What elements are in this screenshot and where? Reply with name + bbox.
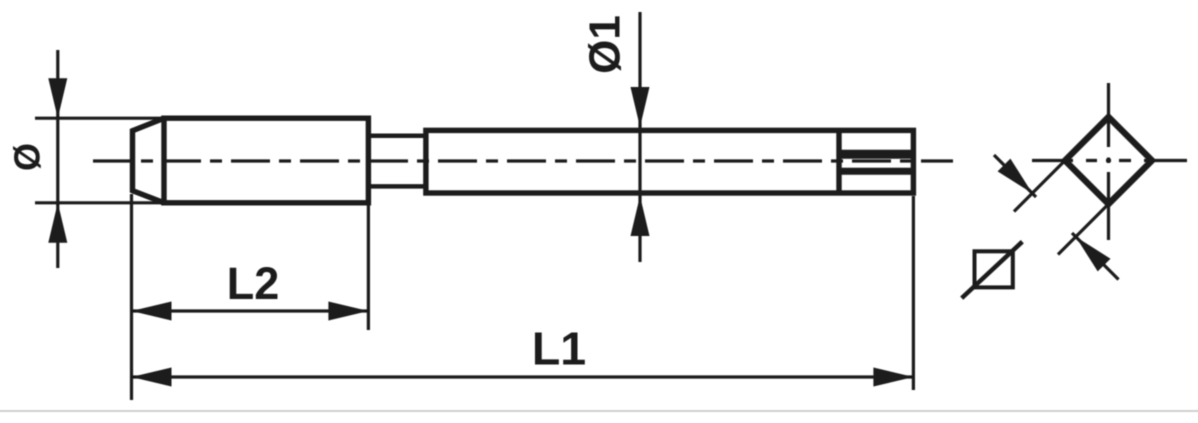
sq dim arrow SE (998, 159, 1033, 194)
dim L1 arrow right (873, 368, 913, 387)
square drive lower flat (839, 168, 913, 175)
tap cutting body (164, 118, 368, 203)
tap chamfered tip (133, 118, 165, 203)
dim Ø1 arrow down (631, 87, 650, 127)
sq dim extension line A (1014, 161, 1065, 212)
svg-text:Ø1: Ø1 (581, 15, 630, 74)
dim Ø1 arrow up (631, 196, 650, 236)
svg-text:L1: L1 (532, 323, 586, 375)
dim Ø1 dimension line (638, 12, 641, 262)
sq dim line NW segment (994, 155, 1036, 197)
dim L2 dimension line (132, 309, 369, 312)
dim L1 extension line right (912, 196, 915, 390)
centerline main axis (93, 159, 953, 162)
svg-text:Ø: Ø (7, 143, 48, 171)
sq dim extension line B (1058, 204, 1109, 255)
svg-text:L2: L2 (227, 258, 280, 309)
dim Ø arrow up (48, 203, 67, 243)
dim L1 arrow left (132, 368, 172, 387)
sq dim line SE segment (1072, 233, 1119, 280)
end view horizontal centerline (1032, 159, 1187, 162)
neck lower line (368, 184, 426, 189)
dim Ø dimension line (56, 50, 59, 268)
dim Ø extension line bottom (35, 201, 164, 204)
dim L2 arrow left (132, 302, 172, 321)
square drive upper flat (839, 150, 913, 159)
dim L2 extension line left (130, 194, 133, 400)
square drive left boundary (836, 130, 841, 193)
square section symbol box (975, 251, 1013, 287)
dim Ø extension line top (35, 117, 164, 120)
bottom rule (0, 410, 1198, 413)
dim Ø arrow down (48, 78, 67, 118)
square end view (diamond) (1065, 117, 1152, 204)
shank (426, 130, 914, 193)
sq dim arrow NW (1076, 237, 1111, 272)
neck upper line (368, 134, 426, 139)
square section symbol slash (962, 242, 1023, 298)
end view vertical centerline (1107, 83, 1110, 240)
dim L2 arrow right (328, 302, 368, 321)
dim L1 dimension line (132, 375, 914, 378)
dim L2 extension line right (367, 205, 370, 330)
